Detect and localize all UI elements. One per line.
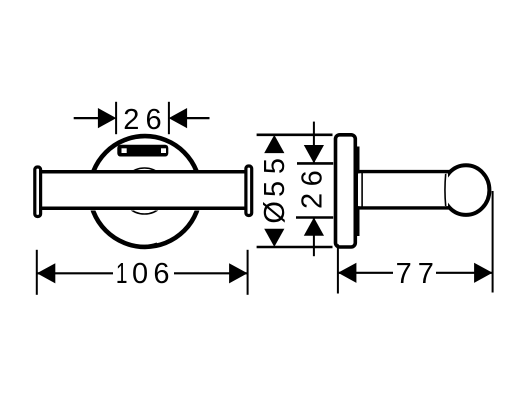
dim26 left tail line (74, 117, 99, 119)
dim77 right arrow (474, 263, 492, 283)
dim26 left extension line (115, 102, 117, 134)
dim26v bottom arrow (up) (304, 218, 324, 236)
svg-text:5: 5 (259, 181, 291, 197)
slot hole left (122, 148, 127, 153)
svg-text:7: 7 (396, 258, 412, 290)
bar top line (41, 170, 245, 174)
right end cap (246, 166, 252, 216)
svg-text:6: 6 (153, 258, 169, 290)
svg-text:6: 6 (146, 104, 162, 136)
svg-text:2: 2 (296, 193, 328, 209)
plate top extension line (257, 134, 333, 137)
dia55 top arrow (up) (264, 135, 284, 153)
svg-text:7: 7 (418, 258, 434, 290)
ball (hook end) (443, 165, 490, 215)
svg-text:1: 1 (116, 258, 128, 290)
dim77 line left segment (338, 272, 393, 274)
rod/plate junction line (361, 172, 363, 208)
bar bottom line (41, 206, 245, 210)
dim26v top arrow (down) (304, 145, 324, 163)
left end cap (35, 167, 41, 217)
svg-text:0: 0 (132, 258, 148, 290)
dim106 left arrow (37, 263, 55, 283)
dim106 line right segment (174, 272, 248, 274)
dim106 line left segment (37, 272, 113, 274)
dim26v bottom line (313, 218, 315, 257)
rod bottom extension line (296, 216, 333, 219)
dim77 left extension line (337, 244, 339, 293)
dia55 bottom arrow (down) (264, 229, 284, 247)
dim106 right extension line (247, 250, 249, 295)
wall plate side view (336, 135, 356, 247)
rod/ball junction line (444, 174, 447, 206)
wall plate circle (90, 136, 201, 247)
dim26v top line (313, 122, 315, 163)
plate bottom extension line (257, 246, 333, 249)
svg-text:2: 2 (123, 104, 139, 136)
dim77 line right segment (436, 272, 493, 274)
mounting slot (black) (117, 145, 168, 157)
bottom detail arc (129, 243, 157, 245)
rod top line (358, 170, 450, 173)
dim26 left arrow (98, 108, 116, 128)
slot hole right (161, 148, 166, 153)
plate front-face collar line (357, 147, 360, 237)
rod bottom line (358, 206, 450, 209)
svg-text:6: 6 (296, 170, 328, 186)
dim26 right extension line (168, 102, 170, 134)
bar body (white fill covering circle) (41, 170, 245, 211)
dim77 right extension line (492, 191, 494, 293)
inner hub circle (thin) (122, 168, 168, 214)
rod body white fill (358, 173, 448, 206)
dim106 right arrow (229, 263, 247, 283)
rod top extension line (297, 162, 333, 165)
dim26 right tail line (187, 117, 210, 119)
svg-text:Ø: Ø (259, 201, 291, 224)
dim26 right arrow (169, 108, 187, 128)
dim106 left extension line (36, 250, 38, 295)
svg-text:5: 5 (259, 158, 291, 174)
dim77 left arrow (338, 263, 356, 283)
